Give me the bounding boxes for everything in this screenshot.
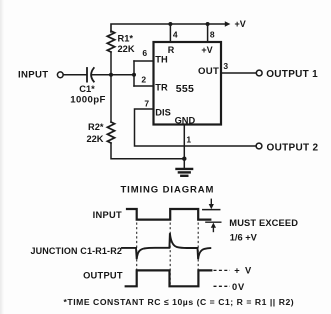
wire pin 2 <box>134 85 154 87</box>
wire pin 4 stub <box>169 24 171 42</box>
dashed timing line 3 <box>197 223 199 286</box>
svg-text:+V: +V <box>201 45 212 55</box>
capacitor C1 <box>86 68 88 82</box>
svg-text:INPUT: INPUT <box>18 69 49 80</box>
dashed level +V <box>214 269 231 271</box>
svg-text:22K: 22K <box>118 44 135 54</box>
wire R1 bottom to junction <box>110 52 112 75</box>
waveform INPUT trace <box>127 209 210 220</box>
dimension up arrow <box>212 227 214 231</box>
input terminal <box>57 72 63 78</box>
dashed timing line 2 <box>169 223 171 286</box>
svg-text:TIMING DIAGRAM: TIMING DIAGRAM <box>120 185 214 196</box>
node TH-TR tie junction <box>132 73 136 77</box>
svg-text:*TIME CONSTANT RC ≤ 10µs (C =: *TIME CONSTANT RC ≤ 10µs (C = C1; R = R1… <box>64 297 295 307</box>
wire pin 1 gnd stub <box>183 125 185 169</box>
svg-text:1/6 +V: 1/6 +V <box>230 232 258 242</box>
resistor R2 <box>107 122 114 143</box>
svg-text:OUTPUT 1: OUTPUT 1 <box>266 69 318 80</box>
svg-text:R1*: R1* <box>118 34 134 44</box>
node pin4 rail junction <box>168 22 172 26</box>
svg-text:4: 4 <box>173 30 178 40</box>
+V supply arrowhead <box>225 21 231 26</box>
wire TH-TR bracket <box>133 61 135 86</box>
svg-text:MUST EXCEED: MUST EXCEED <box>229 218 298 228</box>
wire R2 bottom to ground <box>111 143 184 159</box>
svg-text:+V: +V <box>235 19 246 29</box>
svg-text:6: 6 <box>142 48 147 58</box>
wire pin 3 to output1 <box>221 72 256 74</box>
waveform OUTPUT trace <box>126 270 212 286</box>
svg-text:DIS: DIS <box>155 107 171 117</box>
dashed timing line 1 <box>136 223 138 286</box>
svg-text:0V: 0V <box>232 282 245 292</box>
svg-text:OUT: OUT <box>198 66 219 77</box>
node pin8 rail junction <box>206 22 210 26</box>
svg-text:TR: TR <box>155 83 168 93</box>
ground <box>177 168 193 170</box>
op-amp U1 555 timer body <box>154 42 222 125</box>
svg-text:3: 3 <box>223 61 228 71</box>
dimension reference line high <box>203 209 220 211</box>
dimension reference line low <box>206 221 221 223</box>
wire pin 7 discharge to output2 <box>135 109 257 146</box>
output 1 terminal <box>256 70 262 76</box>
dimension down arrow <box>210 199 212 204</box>
wire R1R2 vertical <box>110 75 112 122</box>
wire input to C1 <box>63 74 86 76</box>
output 2 terminal <box>256 143 262 149</box>
svg-text:2: 2 <box>141 75 146 85</box>
svg-text:INPUT: INPUT <box>93 210 122 220</box>
svg-text:555: 555 <box>176 83 194 95</box>
svg-text:TH: TH <box>155 54 168 64</box>
dashed level 0V <box>214 285 231 287</box>
svg-text:R: R <box>168 45 175 55</box>
svg-text:C1*: C1* <box>79 84 95 94</box>
svg-text:+ V: + V <box>234 265 252 275</box>
svg-text:OUTPUT 2: OUTPUT 2 <box>267 143 319 154</box>
svg-text:1000pF: 1000pF <box>70 94 105 105</box>
svg-text:7: 7 <box>144 99 149 109</box>
wire C1 to pins junction <box>92 74 134 76</box>
node C1-R1-R2 junction <box>109 73 113 77</box>
wire pin 8 stub <box>207 24 209 42</box>
svg-text:1: 1 <box>186 135 191 145</box>
wire +V supply rail <box>111 24 226 32</box>
svg-text:22K: 22K <box>86 134 103 144</box>
svg-text:JUNCTION C1-R1-R2: JUNCTION C1-R1-R2 <box>30 246 122 256</box>
svg-text:8: 8 <box>210 30 215 40</box>
svg-text:R2*: R2* <box>88 122 104 132</box>
waveform JUNCTION trace <box>122 233 210 259</box>
svg-text:OUTPUT: OUTPUT <box>83 270 123 280</box>
wire pin 6 <box>134 60 154 62</box>
resistor R1 <box>107 31 114 52</box>
node gnd junction <box>182 157 186 161</box>
